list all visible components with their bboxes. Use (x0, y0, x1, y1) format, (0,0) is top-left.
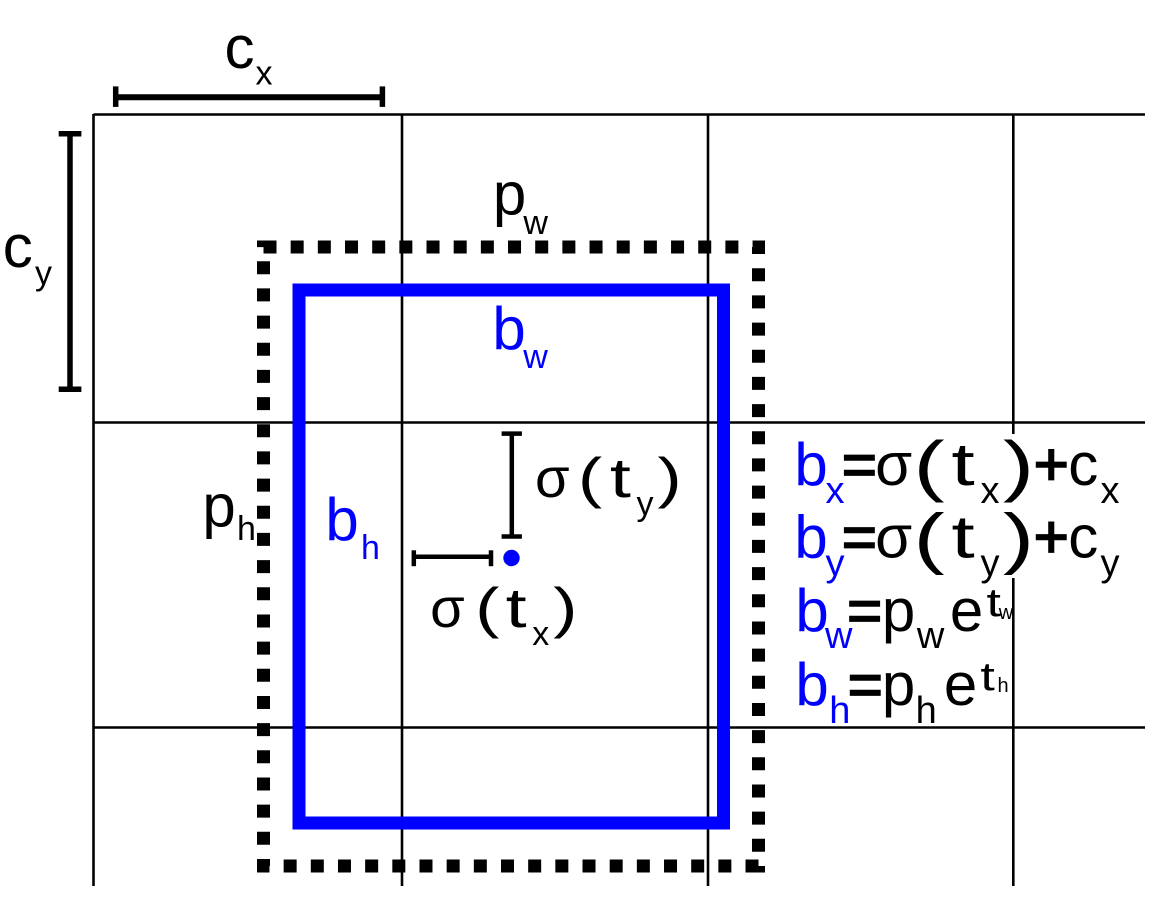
svg-text:b: b (325, 486, 358, 553)
equation 2: b_y = sigma(t_y) + c_y (794, 500, 1119, 584)
label sigma(t_x) (430, 576, 577, 653)
prior box (dotted rectangle) (264, 247, 759, 866)
sigma(t_x) indicator right tick (489, 550, 494, 566)
svg-text:p: p (882, 577, 915, 644)
label c_x (225, 14, 273, 93)
svg-text:σ: σ (875, 431, 912, 498)
svg-text:y: y (1101, 543, 1120, 585)
svg-text:b: b (794, 504, 827, 571)
svg-text:b: b (794, 431, 827, 498)
equation 3: b_w = p_w e^{t_w} (795, 577, 1013, 657)
box center dot (blue) (503, 550, 519, 566)
sigma(t_y) indicator bottom serif (502, 534, 522, 539)
svg-text:σ: σ (535, 446, 570, 509)
svg-text:e: e (944, 651, 977, 718)
svg-text:t: t (951, 504, 974, 571)
svg-text:w: w (522, 338, 548, 376)
svg-text:x: x (1101, 470, 1120, 512)
svg-text:p: p (882, 651, 915, 718)
svg-text:): ) (657, 446, 681, 509)
svg-text:σ: σ (430, 576, 465, 639)
svg-text:y: y (637, 485, 654, 523)
c_y bracket bottom tick (59, 386, 82, 392)
c_x bracket right tick (380, 86, 386, 107)
label b_w (blue) (492, 295, 548, 376)
grid horizontal line 1 (top) (94, 113, 1146, 116)
grid vertical line 2 (401, 114, 404, 886)
c_x bracket bar (116, 94, 383, 100)
svg-text:t: t (610, 447, 631, 509)
svg-text:h: h (237, 510, 256, 548)
svg-text:b: b (795, 651, 828, 718)
svg-text:): ) (1003, 500, 1034, 576)
svg-text:x: x (981, 470, 1000, 512)
c_x bracket left tick (113, 86, 119, 107)
predicted box (blue rectangle) (299, 290, 724, 823)
sigma(t_x) indicator left tick (412, 550, 417, 566)
svg-text:+: + (1034, 504, 1069, 571)
label sigma(t_y) (535, 446, 682, 523)
svg-text:h: h (997, 675, 1008, 697)
svg-text:b: b (795, 577, 828, 644)
svg-text:p: p (493, 161, 526, 228)
svg-text:=: = (842, 504, 877, 571)
c_y bracket top tick (59, 131, 82, 137)
sigma(t_x) indicator horizontal line (414, 555, 491, 560)
c_y bracket bar (67, 134, 73, 389)
svg-text:h: h (361, 529, 380, 567)
svg-text:h: h (916, 690, 937, 732)
svg-text:c: c (1068, 504, 1098, 571)
grid horizontal line 2 (94, 421, 1146, 424)
svg-text:y: y (981, 543, 1000, 585)
svg-text:t: t (980, 654, 995, 699)
svg-text:c: c (1068, 431, 1098, 498)
label b_h (blue) (325, 486, 380, 567)
svg-text:+: + (1034, 431, 1069, 498)
label p_h (202, 473, 256, 549)
svg-text:w: w (916, 615, 945, 657)
sigma(t_y) indicator vertical line (510, 434, 515, 537)
grid vertical line 1 (92, 114, 95, 886)
svg-text:t: t (506, 577, 527, 639)
grid vertical line 4 (1012, 114, 1015, 886)
svg-text:σ: σ (875, 504, 912, 571)
svg-text:w: w (522, 204, 548, 242)
svg-text:(: ( (913, 428, 944, 504)
svg-text:(: ( (913, 500, 944, 576)
equation 1: b_x = sigma(t_x) + c_x (794, 428, 1119, 512)
svg-text:y: y (35, 254, 52, 292)
svg-text:(: ( (578, 446, 603, 509)
svg-text:w: w (998, 602, 1014, 624)
svg-text:c: c (225, 14, 255, 81)
equation 4: b_h = p_h e^{t_h} (795, 651, 1008, 732)
svg-text:(: ( (475, 576, 500, 639)
svg-text:): ) (1003, 428, 1034, 504)
svg-text:=: = (847, 577, 882, 644)
svg-text:): ) (553, 576, 577, 639)
svg-text:p: p (202, 473, 235, 540)
white mask behind equation lines 1-2 (1004, 434, 1125, 578)
svg-text:x: x (532, 615, 549, 653)
grid horizontal line 3 (94, 726, 1146, 729)
svg-text:t: t (951, 432, 974, 499)
svg-text:c: c (3, 213, 33, 280)
svg-text:=: = (842, 431, 877, 498)
svg-text:b: b (492, 295, 525, 362)
svg-text:x: x (256, 55, 273, 93)
grid vertical line 3 (707, 114, 710, 886)
svg-text:e: e (950, 577, 983, 644)
label p_w (493, 161, 549, 243)
label c_y (3, 213, 52, 292)
sigma(t_y) indicator top serif (502, 431, 522, 436)
svg-text:=: = (848, 651, 883, 718)
